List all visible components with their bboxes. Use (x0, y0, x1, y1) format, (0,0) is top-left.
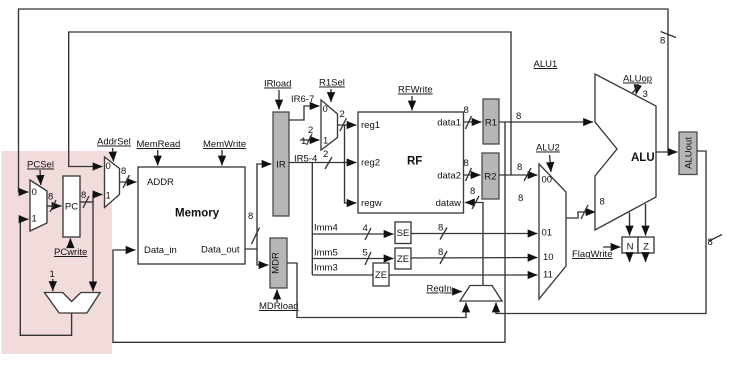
svg-text:1: 1 (323, 136, 328, 147)
svg-text:8: 8 (470, 186, 475, 197)
wire PC output (80, 201, 93, 203)
svg-text:Imm4: Imm4 (314, 223, 338, 234)
IRload arrow into IR (278, 90, 280, 110)
bus-width slash (307, 134, 313, 145)
MDRload arrow into MDR (276, 290, 278, 303)
bus-width slash (365, 228, 371, 240)
svg-text:IR: IR (276, 160, 286, 171)
svg-text:0: 0 (32, 187, 37, 198)
block ZE lower (373, 263, 389, 286)
bus-width slash (466, 116, 472, 129)
svg-text:8: 8 (48, 192, 53, 203)
block RF register file (358, 112, 464, 213)
svg-text:ADDR: ADDR (147, 177, 174, 188)
bus-width slash (83, 196, 89, 208)
svg-text:00: 00 (542, 175, 553, 186)
wires ALU to flag registers (629, 213, 631, 236)
mux AddrSel (105, 157, 120, 208)
svg-text:MDR: MDR (271, 252, 282, 274)
ALUop arrow into ALU (636, 84, 638, 95)
svg-text:Imm5: Imm5 (314, 248, 338, 259)
svg-text:8: 8 (660, 36, 665, 47)
wire ZE to ALU2 mux input 10 (411, 257, 538, 260)
wire Imm4 to SE (312, 233, 393, 235)
svg-text:R1Sel: R1Sel (319, 78, 345, 89)
svg-text:8: 8 (438, 223, 443, 234)
svg-text:MDRload: MDRload (259, 301, 299, 312)
wire RegIn mux output to dataw (465, 203, 483, 286)
wire ALU-result to PCSel input 0 (top long feedback) (19, 9, 669, 192)
bus-width slash (325, 157, 332, 169)
wire adder output loop to PCSel input 1 (20, 219, 71, 335)
svg-text:N: N (627, 242, 634, 253)
svg-text:MemWrite: MemWrite (203, 139, 246, 150)
svg-text:ZE: ZE (397, 254, 409, 265)
svg-text:ALUout: ALUout (684, 137, 695, 169)
bus-width slash (340, 118, 347, 131)
pink highlight region (2, 151, 113, 354)
svg-text:1: 1 (50, 269, 55, 280)
svg-text:Imm3: Imm3 (314, 263, 338, 274)
svg-text:IRload: IRload (264, 79, 291, 90)
wire ALUout to bottom feedback and RegIn mux input (right) (496, 151, 706, 314)
svg-text:ALU1: ALU1 (534, 59, 558, 70)
wire data1 to R1 (464, 121, 482, 123)
bus-width slash (440, 251, 447, 264)
block ZE upper (395, 248, 411, 269)
svg-text:ALU: ALU (631, 152, 655, 164)
bus-width slash (365, 252, 371, 265)
flag register Z (638, 237, 654, 253)
svg-text:8: 8 (464, 158, 469, 169)
svg-text:R2: R2 (484, 172, 496, 183)
wire R2 to AddrSel input 0 (second feedback) (69, 32, 511, 175)
svg-text:AddrSel: AddrSel (97, 137, 131, 148)
wire IR5-4 to reg2 (289, 162, 357, 164)
bus-width slash (466, 168, 472, 181)
svg-text:R1: R1 (485, 118, 497, 129)
bus-width slash (709, 235, 722, 242)
register MDR (270, 238, 287, 288)
bus-width slash (632, 86, 639, 94)
wire ALU2 mux output to ALU input 2 (566, 212, 596, 218)
svg-text:8: 8 (518, 193, 523, 204)
svg-text:RegIn: RegIn (427, 284, 452, 295)
wire R1 output to ALU input 1 (499, 121, 593, 123)
bus-width slash (661, 32, 677, 38)
flag register N (622, 237, 638, 253)
svg-text:8: 8 (464, 105, 469, 116)
R1Sel select arrow (330, 89, 332, 102)
ALU2 select arrow (550, 155, 552, 172)
wire Imm3 to ZE lower (312, 274, 373, 276)
svg-text:FlagWrite: FlagWrite (572, 249, 612, 260)
wire IR6-7 to R1Sel input 0 (289, 106, 320, 120)
svg-text:SE: SE (397, 228, 410, 239)
svg-text:Data_out: Data_out (201, 245, 240, 256)
bus-width slash (581, 205, 588, 219)
svg-text:0: 0 (106, 161, 111, 172)
alu ALU (595, 74, 656, 230)
svg-text:ALU2: ALU2 (536, 143, 560, 154)
wire R1Sel output down to regw (345, 125, 357, 203)
mux RegIn (460, 286, 502, 302)
bus-width slash (440, 228, 447, 240)
svg-text:reg1: reg1 (361, 120, 380, 131)
svg-text:8: 8 (81, 190, 86, 201)
block Memory (138, 167, 245, 264)
wire PC to AddrSel input 1 (93, 195, 103, 203)
bus-width slash (524, 168, 531, 181)
AddrSel select arrow (113, 148, 114, 162)
svg-text:ALUop: ALUop (623, 74, 652, 85)
register R1 (483, 99, 499, 144)
flag outputs (629, 253, 631, 262)
wire R2 output to ALU2 mux input 00 (499, 174, 538, 176)
bus-width slash (472, 196, 479, 209)
svg-text:data1: data1 (437, 118, 461, 129)
svg-text:8: 8 (121, 166, 126, 177)
register ALUout (679, 132, 697, 175)
adder PC+1 (45, 293, 101, 314)
svg-text:regw: regw (361, 198, 382, 209)
bus-width slash (50, 200, 56, 212)
FlagWrite arrow (603, 246, 621, 248)
MemRead arrow (157, 150, 159, 166)
wire data2 to R2 (464, 174, 481, 176)
svg-text:10: 10 (543, 252, 554, 263)
wire SE to ALU2 mux input 01 (411, 233, 538, 235)
svg-text:RF: RF (407, 156, 422, 168)
svg-text:IR6-7: IR6-7 (291, 94, 314, 105)
svg-text:RFWrite: RFWrite (398, 85, 433, 96)
svg-text:8: 8 (600, 197, 605, 208)
svg-text:1: 1 (106, 191, 111, 202)
svg-text:2: 2 (323, 149, 328, 160)
svg-text:2: 2 (340, 109, 345, 120)
wire R1Sel output to reg1 (338, 124, 357, 126)
wire PCSel output to PC (47, 205, 62, 207)
svg-text:5: 5 (363, 248, 368, 259)
wire R1 to Memory Data_in (bottom loop) (113, 122, 505, 342)
svg-text:3: 3 (643, 89, 648, 100)
svg-text:ZE: ZE (375, 270, 387, 281)
svg-text:reg2: reg2 (361, 158, 380, 169)
svg-text:4: 4 (363, 223, 368, 234)
svg-text:MemRead: MemRead (137, 139, 181, 150)
svg-text:8: 8 (248, 211, 253, 222)
svg-text:data2: data2 (437, 171, 461, 182)
svg-text:8: 8 (517, 162, 522, 173)
PCwrite arrow into PC (69, 238, 71, 246)
bus-width slash (252, 228, 260, 245)
wire Imm5 to ZE (312, 258, 393, 260)
svg-text:1: 1 (32, 214, 37, 225)
svg-text:dataw: dataw (436, 198, 461, 209)
svg-text:1: 1 (301, 136, 306, 147)
register PC (63, 176, 80, 237)
svg-text:8: 8 (438, 247, 443, 258)
RFWrite arrow into RF (411, 96, 413, 111)
register IR (273, 112, 289, 216)
wire AddrSel output to Memory ADDR (120, 181, 137, 183)
svg-text:Z: Z (643, 242, 649, 253)
mux PCSel (30, 180, 47, 231)
svg-text:PCSel: PCSel (27, 160, 54, 171)
svg-text:PCwrite: PCwrite (54, 247, 87, 258)
svg-text:01: 01 (542, 228, 553, 239)
bus-width slash (123, 175, 130, 188)
wire Data_out to IR and MDR (245, 164, 272, 249)
wire ALU output to ALUout (656, 151, 678, 153)
mux R1Sel (321, 100, 338, 150)
MemWrite arrow (221, 150, 223, 166)
wire MDR output to RegIn mux input (left) (287, 263, 466, 318)
svg-text:0: 0 (323, 104, 328, 115)
svg-text:2: 2 (308, 125, 313, 136)
wire ZE lower to ALU2 mux input 11 (389, 274, 538, 276)
wire Imm trunk from IR5-4 down (311, 163, 313, 276)
svg-text:Data_in: Data_in (144, 245, 177, 256)
svg-text:8: 8 (708, 237, 713, 248)
svg-text:PC: PC (65, 202, 78, 213)
mux ALU2 (539, 164, 566, 299)
register R2 (482, 153, 499, 199)
svg-text:Memory: Memory (175, 208, 220, 220)
svg-text:8: 8 (516, 111, 521, 122)
block SE (395, 222, 411, 244)
constant 1 input to R1Sel (300, 139, 320, 141)
svg-text:11: 11 (543, 270, 553, 281)
PCSel select arrow (39, 170, 42, 185)
wire PC down to adder (92, 202, 94, 291)
RegIn select arrow (453, 291, 462, 293)
